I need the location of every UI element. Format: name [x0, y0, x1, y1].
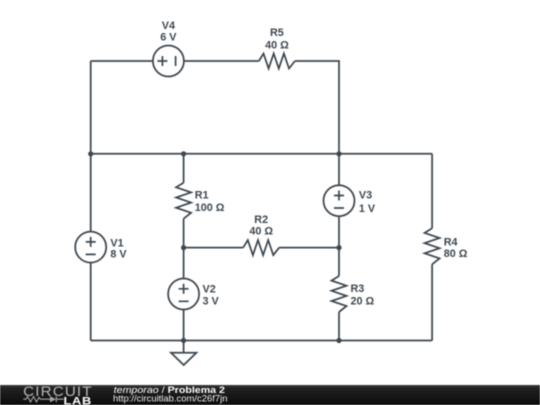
label R5 name: [270, 27, 284, 39]
junction ground node: [181, 338, 186, 343]
label V1 value: [110, 248, 127, 260]
footer logo LAB wordmark: [64, 395, 92, 405]
svg-text:R5: R5: [270, 27, 284, 39]
ground: [171, 341, 196, 366]
svg-text:LAB: LAB: [64, 395, 92, 405]
svg-text:V2: V2: [203, 284, 216, 296]
resistor R2: [243, 240, 279, 255]
svg-text:8 V: 8 V: [110, 248, 127, 260]
footer url text: [113, 393, 228, 403]
wire node B to R2 left: [184, 247, 244, 249]
junction node B: [181, 245, 186, 250]
svg-text:R2: R2: [254, 214, 268, 226]
wire bus to V3 top: [338, 154, 340, 185]
label R3 name: [351, 283, 365, 295]
wire R4 bottom to bottom rail: [431, 264, 433, 340]
wire top-left from left rail to V4: [91, 60, 153, 62]
label R5 value: [265, 39, 289, 51]
svg-text:V4: V4: [162, 20, 175, 32]
label V3 value: [359, 203, 376, 215]
junction dot bus-left: [88, 151, 93, 156]
wire R2 right to node C: [279, 247, 339, 249]
svg-text:V3: V3: [359, 190, 372, 202]
resistor R5: [259, 54, 295, 69]
wire V3 bottom to node C: [338, 216, 340, 247]
svg-text:3 V: 3 V: [203, 295, 220, 307]
wire node C to R3 top: [338, 248, 340, 276]
svg-text:R1: R1: [195, 190, 209, 202]
label V2 name: [203, 284, 216, 296]
junction node C: [336, 245, 341, 250]
label V1 name: [110, 237, 123, 249]
label V4 value: [160, 32, 177, 44]
svg-text:http://circuitlab.com/c26f7jn: http://circuitlab.com/c26f7jn: [113, 393, 228, 403]
svg-text:40 Ω: 40 Ω: [265, 39, 289, 51]
voltage source V1: [75, 232, 106, 263]
footer title text: [114, 385, 225, 395]
wire V4 to R5: [184, 60, 259, 62]
wire bottom rail: [91, 340, 432, 342]
wire V2 bottom to ground node: [183, 310, 185, 341]
label R4 value: [444, 248, 468, 260]
wire R1 bottom to node B: [183, 219, 185, 248]
label R3 value: [351, 296, 375, 308]
label R1 value: [195, 202, 225, 214]
wire R5 right to top-right corner down to bus: [295, 61, 339, 154]
svg-text:100 Ω: 100 Ω: [195, 202, 225, 214]
wire bus to R1 top: [183, 154, 185, 183]
junction dot bus-V3: [336, 151, 341, 156]
svg-text:80 Ω: 80 Ω: [444, 248, 468, 260]
footer bar: [0, 385, 540, 405]
label V4 name: [162, 20, 175, 32]
wire V1 bottom to bottom rail: [90, 262, 92, 340]
voltage source V4: [153, 46, 184, 77]
label R2 name: [254, 214, 268, 226]
label R1 name: [195, 190, 209, 202]
footer logo CIRCUIT wordmark: [23, 384, 93, 399]
wire node B to V2 top: [183, 248, 185, 279]
label V2 value: [203, 295, 220, 307]
label R4 name: [444, 237, 458, 249]
svg-text:6 V: 6 V: [160, 32, 177, 44]
svg-text:R4: R4: [444, 237, 458, 249]
footer logo resistor-diode squiggle: [23, 396, 63, 402]
wire right rail upper to R4: [431, 154, 433, 229]
wire left rail upper: [90, 61, 92, 232]
svg-text:40 Ω: 40 Ω: [249, 226, 273, 238]
label R2 value: [249, 226, 273, 238]
svg-text:20 Ω: 20 Ω: [351, 296, 375, 308]
svg-text:1 V: 1 V: [359, 203, 376, 215]
resistor R1: [176, 183, 191, 219]
svg-text:R3: R3: [351, 283, 365, 295]
voltage source V3: [324, 185, 355, 216]
label V3 name: [359, 190, 372, 202]
voltage source V2: [168, 279, 199, 310]
junction bottom-R3: [336, 338, 341, 343]
wire R3 bottom to bottom rail: [338, 312, 340, 341]
resistor R3: [332, 276, 347, 312]
wire main bus node A: [91, 153, 432, 155]
resistor R4: [425, 228, 440, 264]
junction dot bus-R1: [181, 151, 186, 156]
